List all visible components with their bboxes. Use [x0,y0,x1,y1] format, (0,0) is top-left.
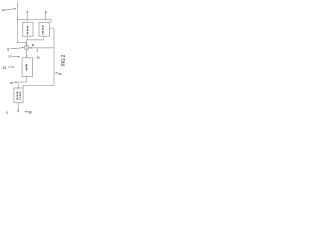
wire label 20 tap [36,48,38,51]
arrowhead into mixer left [22,47,24,49]
junction blob right of mixer [32,44,34,46]
leader label 8 to mixer [10,48,22,49]
wire box6 right feed [49,27,54,29]
wire box16 output jog [18,77,26,88]
box 4 text [27,26,29,35]
wire mixer output [26,50,28,56]
wire main left vertical [17,2,26,43]
mixer cross [25,46,28,49]
svg-text:20: 20 [37,56,41,60]
box 6 text [42,25,44,34]
mixer circle [24,45,28,49]
box 6 (top-right oscillator) [39,22,49,36]
arrowhead label30 leader [24,111,26,113]
svg-text:28: 28 [58,72,62,76]
wire box4 bottom stub [26,36,28,40]
wire bottom horizontal from bus to box26 [23,86,54,88]
arrowhead mixer output into box16 [26,56,28,58]
arrowhead into box26 top [17,88,19,90]
wire drop into mixer [26,40,28,44]
wire merge line [27,39,44,41]
leader label24 [8,66,13,68]
wire box26 output [17,103,19,111]
wire top branch [17,20,51,23]
box 16 text [26,64,28,70]
arrowhead box26 output down [17,110,19,113]
arrowhead into mixer top [26,43,28,45]
wire mixer LO horizontal [29,47,54,49]
svg-text:26: 26 [10,81,14,85]
wire stub label 4 to box 4 top [26,14,28,22]
svg-text:30: 30 [28,111,32,115]
svg-text:22: 22 [9,55,12,59]
arrowhead label26 leader [16,81,18,83]
wire stub label 6 [45,14,47,20]
svg-text:4: 4 [26,11,28,15]
wire box6 bottom stub [42,36,44,40]
wire right bus vertical [53,28,55,85]
box 26 (bottom block) [14,88,23,103]
leader label26 [13,81,16,83]
svg-text:FIG 2: FIG 2 [61,55,67,66]
arrowhead label24 leader [13,66,15,68]
svg-text:6: 6 [45,10,47,14]
box 26 text line2 [19,92,21,100]
svg-text:2: 2 [6,111,8,115]
leader label30 [26,111,28,113]
leader label28 [57,72,59,74]
box 26 text line1 [16,92,18,100]
svg-text:8: 8 [7,47,9,51]
box 4 (top-left oscillator) [23,22,33,36]
arrowhead label28 leader [55,72,57,74]
svg-text:10: 10 [2,8,6,12]
box 16 (middle amplifier) [22,58,32,77]
svg-text:24: 24 [3,66,7,70]
arrowhead label10 leader [14,8,16,10]
arrowhead label22 leader [18,56,20,58]
leader label22 [12,56,19,58]
arrowhead into mixer right [29,47,31,49]
leader label10 [5,9,14,10]
arrowhead label20 tap down [36,50,38,52]
